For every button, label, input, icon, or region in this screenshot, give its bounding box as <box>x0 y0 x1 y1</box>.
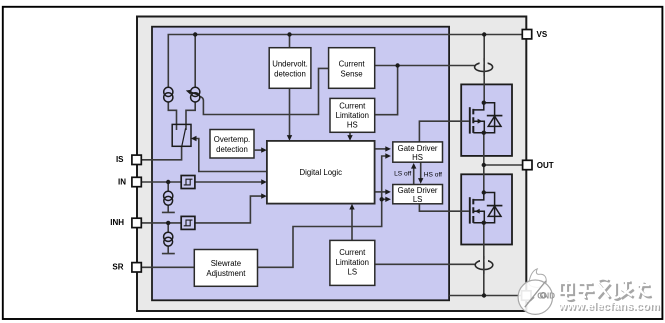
block gate driver HS <box>393 142 443 162</box>
label LS off <box>394 171 411 178</box>
wire current limitation LS to digital logic <box>351 206 353 241</box>
current source I4 <box>164 232 173 246</box>
LS body diode D2 <box>484 193 503 223</box>
wire gate driver LS to LS gate <box>419 204 469 211</box>
watermark compass circle <box>518 280 552 314</box>
svg-text:Slewrate: Slewrate <box>211 259 241 268</box>
pin IS <box>116 155 141 164</box>
label HS off <box>424 171 442 178</box>
wire INH to schmitt <box>142 222 182 224</box>
wire cs1 to switch <box>168 102 176 130</box>
wire LS off <box>413 165 415 185</box>
watermark flame <box>529 269 546 288</box>
arrow into switch <box>191 136 197 141</box>
junction slewrate branch <box>380 197 384 201</box>
wire current limitation LS sense <box>375 263 476 265</box>
watermark chinese text <box>560 279 652 301</box>
outer chip box <box>137 17 526 312</box>
junction IN current source <box>166 180 170 184</box>
arrow CLHS into digital logic <box>347 135 352 141</box>
HS MOSFET box <box>461 84 512 155</box>
wire digital logic to gate driver LS <box>375 191 389 193</box>
pin INH <box>110 218 141 227</box>
wire IS to switch <box>142 146 182 160</box>
LS MOSFET Q2 <box>470 193 485 224</box>
arrow slewrate to gate driver HS <box>385 153 391 158</box>
junction LS drain <box>482 190 486 194</box>
junction HS drain <box>482 101 486 105</box>
svg-text:detection: detection <box>274 69 306 78</box>
junction INH current source <box>166 221 170 225</box>
arrow slewrate to gate driver LS <box>385 197 391 202</box>
current source I2 adjustable <box>186 87 200 102</box>
block digital logic <box>267 141 375 204</box>
wire cs2 stem <box>194 35 196 88</box>
svg-text:IN: IN <box>118 177 126 186</box>
block current limitation LS <box>330 240 375 285</box>
pin OUT <box>523 160 554 170</box>
svg-text:Adjustment: Adjustment <box>206 269 246 278</box>
wire gate driver HS to HS gate <box>419 121 469 142</box>
svg-text:Gate Driver: Gate Driver <box>398 186 438 195</box>
svg-text:Current: Current <box>339 59 366 68</box>
svg-text:Overtemp.: Overtemp. <box>214 135 250 144</box>
arrow LS off up <box>411 163 416 169</box>
block slewrate adjustment <box>194 250 257 287</box>
junction OUT node <box>482 163 486 167</box>
wire switch control from digital logic <box>193 139 267 172</box>
svg-text:Current: Current <box>339 248 366 257</box>
pin VS <box>522 30 548 40</box>
current source I1 <box>164 87 173 102</box>
svg-text:Limitation: Limitation <box>336 111 369 120</box>
block current sense <box>329 48 375 89</box>
junction current sense out <box>395 63 399 67</box>
svg-text:HS: HS <box>412 153 423 162</box>
wire schmitt IN to digital logic <box>195 181 265 183</box>
arrow HS off down <box>418 178 423 184</box>
pin IN <box>118 177 141 186</box>
schmitt trigger IN <box>181 176 195 189</box>
svg-text:VS: VS <box>537 30 548 39</box>
wire schmitt INH to digital logic <box>195 196 265 223</box>
wire VS to HS drain <box>483 35 485 103</box>
wire undervolt to digital logic <box>289 88 291 139</box>
block overtemp detection <box>210 130 254 159</box>
wire digital logic to gate driver HS <box>375 148 389 150</box>
switch S1 <box>172 124 191 146</box>
wire current sense output <box>375 65 475 67</box>
svg-text:LS: LS <box>348 268 358 277</box>
svg-text:Current: Current <box>339 101 366 110</box>
block gate driver LS <box>393 185 443 204</box>
wire IN current source stem <box>162 182 175 212</box>
svg-text:OUT: OUT <box>537 161 554 170</box>
block undervoltage detection <box>269 48 311 89</box>
junction GND node <box>482 293 486 297</box>
current sense loop upper <box>475 58 493 76</box>
wire slewrate branch to gate driver LS <box>382 198 389 200</box>
current source I3 <box>164 191 173 205</box>
HS MOSFET Q1 <box>470 103 485 134</box>
pin SR <box>112 263 141 272</box>
svg-text:Limitation: Limitation <box>336 258 369 267</box>
junction rail-undervolt <box>287 32 291 36</box>
wire VS rail <box>168 35 522 89</box>
wire current limitation HS to digital logic <box>349 132 351 139</box>
svg-text:Sense: Sense <box>341 69 363 78</box>
wire IN to schmitt <box>142 181 182 183</box>
wire cs2 to switch <box>186 102 195 130</box>
wire HS off <box>420 162 422 182</box>
svg-text:Digital Logic: Digital Logic <box>300 168 343 177</box>
svg-text:www.elecfans.com: www.elecfans.com <box>558 301 660 313</box>
wire slewrate to gate drivers <box>258 156 390 267</box>
arrow overtemp to digital logic <box>254 147 267 152</box>
svg-text:Gate Driver: Gate Driver <box>398 144 438 153</box>
inner logic box <box>152 27 449 301</box>
LS MOSFET box <box>461 174 512 244</box>
current sense loop lower <box>475 256 493 274</box>
svg-text:SR: SR <box>112 263 123 272</box>
arrow IN into digital logic <box>261 179 267 184</box>
label GND <box>537 291 555 300</box>
svg-text:HS off: HS off <box>424 171 442 178</box>
watermark url text <box>558 301 662 314</box>
arrow undervolt into digital logic <box>287 135 292 141</box>
wire GND line <box>449 295 522 297</box>
svg-text:Undervolt.: Undervolt. <box>272 59 308 68</box>
svg-text:LS off: LS off <box>394 171 411 178</box>
arrow CLLS into digital logic <box>349 204 354 210</box>
junction rail-cs2 <box>193 32 197 36</box>
wire SR to slewrate <box>142 266 195 268</box>
junction LS source <box>482 221 486 225</box>
svg-text:LS: LS <box>413 195 423 204</box>
wire LS source to GND node <box>483 223 485 296</box>
wire current limitation HS sense <box>375 66 398 115</box>
wire HS source to LS drain <box>483 133 485 193</box>
wire to OUT pin <box>484 164 523 166</box>
svg-text:IS: IS <box>116 155 124 164</box>
junction rail-vs-drop <box>482 32 486 36</box>
HS body diode D1 <box>484 103 503 133</box>
svg-text:INH: INH <box>110 218 124 227</box>
arrow INH into digital logic <box>261 193 267 198</box>
junction HS source <box>482 131 486 135</box>
svg-text:detection: detection <box>216 145 248 154</box>
arrow DL to gate driver HS <box>385 146 391 151</box>
wire undervolt stem top <box>289 35 291 48</box>
wire cs2 to current sense <box>200 68 329 114</box>
block current limitation HS <box>330 98 375 132</box>
schmitt trigger INH <box>181 216 195 229</box>
svg-text:GND: GND <box>537 291 555 300</box>
pin GND <box>522 291 531 300</box>
wire INH current source stem <box>162 223 175 254</box>
arrow DL to gate driver LS <box>385 189 391 194</box>
svg-text:HS: HS <box>347 121 358 130</box>
